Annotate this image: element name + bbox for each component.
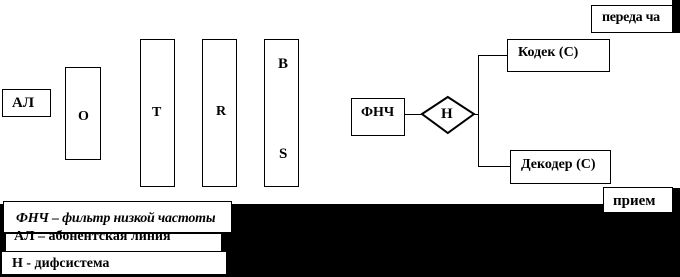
block передача	[591, 5, 673, 33]
block О	[65, 67, 101, 160]
right black edge strip (top, beside передача)	[672, 0, 680, 33]
wire: bus to Кодек	[478, 55, 508, 56]
wire: H diamond right vertex to vertical bus	[474, 114, 479, 115]
wire: ФНЧ to difsystem H	[404, 114, 422, 115]
block ФНЧ (low pass filter)	[351, 98, 405, 136]
block АЛ (abonent line)	[2, 89, 51, 117]
legend line 1 box	[3, 201, 232, 233]
wire: bus to Декодер	[478, 166, 511, 167]
block R	[202, 39, 237, 187]
block Кодек (С)	[507, 39, 610, 72]
block B/S	[264, 39, 299, 187]
block Т	[140, 39, 175, 187]
block прием	[603, 187, 673, 213]
legend line 3 box	[0, 251, 227, 275]
difsystem H diamond (white rect with inscribed diamond)	[419, 94, 477, 136]
bottom black panel	[0, 204, 680, 277]
right black edge strip (bottom, beside прием)	[672, 188, 680, 277]
wire: vertical bus	[478, 55, 479, 167]
legend line 2 box	[5, 233, 222, 252]
block Декодер (С)	[510, 150, 611, 184]
